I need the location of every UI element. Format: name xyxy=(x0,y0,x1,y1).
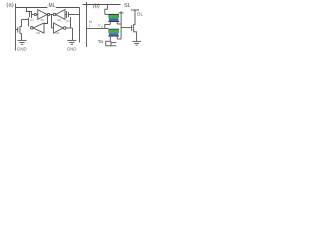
svg-text:DL: DL xyxy=(137,11,143,16)
wire N3 drain jog xyxy=(22,19,29,21)
op-amp I4 triangle xyxy=(54,23,64,33)
wire SLB right vertical xyxy=(79,8,81,43)
svg-text:(a): (a) xyxy=(6,3,13,9)
op-amp I3 triangle xyxy=(33,23,44,33)
wire N1 source down xyxy=(28,18,30,27)
wire T1 source stub xyxy=(109,22,111,24)
wire I2 base xyxy=(65,14,67,16)
svg-text:L: L xyxy=(89,24,91,28)
svg-text:GND: GND xyxy=(67,47,77,53)
wire M5 source to ground xyxy=(134,32,137,42)
wire T2 source structure xyxy=(105,41,107,46)
op-amp I2 triangle xyxy=(56,10,65,20)
ground left xyxy=(18,39,27,41)
wire ML horizontal xyxy=(16,7,80,9)
svg-text:N1: N1 xyxy=(30,18,34,22)
transistor N3 gate lead xyxy=(16,29,18,31)
transistor N3 channel bar xyxy=(19,26,21,34)
wire M5 drain up xyxy=(134,10,135,24)
wire node to I4 input xyxy=(52,15,54,28)
node terminal T bar xyxy=(119,12,124,14)
svg-text:M2: M2 xyxy=(57,18,61,22)
svg-text:SL: SL xyxy=(124,3,131,9)
wire I1-I2 xyxy=(50,14,53,16)
wire SL left vertical xyxy=(15,4,17,51)
wire T1 source to ML xyxy=(105,24,111,28)
svg-text:GND: GND xyxy=(17,47,27,53)
node junction bubble xyxy=(34,13,36,15)
ground right xyxy=(132,40,140,42)
transistor M5 gate bar xyxy=(131,25,133,31)
wire N2 to SLB xyxy=(69,14,80,16)
wire N3 source down xyxy=(21,34,23,41)
transistor M5 channel bar xyxy=(133,24,135,32)
node I4 output bubble xyxy=(63,27,66,30)
node ML label xyxy=(47,1,55,8)
svg-text:M4: M4 xyxy=(55,31,59,35)
svg-text:M1: M1 xyxy=(41,18,45,22)
wire T1 drain stub xyxy=(116,22,118,24)
wire I1out to I3 base xyxy=(44,15,48,24)
wire SL top xyxy=(83,4,121,6)
wire N2 gate down xyxy=(70,17,72,28)
wire FeFET T1 gate drop xyxy=(105,5,108,15)
transistor N1 channel bar xyxy=(31,11,33,18)
svg-text:M3: M3 xyxy=(36,31,40,35)
transistor N1 drain bend xyxy=(27,8,32,12)
node I2 input bubble xyxy=(53,13,55,15)
wire T2 drain stub xyxy=(116,37,118,39)
transistor N3 gate bar xyxy=(17,27,19,33)
wire terminal stem xyxy=(120,13,122,39)
transistor N1 gate bar xyxy=(29,12,31,17)
wire FeFET drains to gate of M5 xyxy=(121,27,132,29)
svg-text:ML: ML xyxy=(49,3,56,9)
op-amp I1 triangle xyxy=(38,10,47,20)
wire N1 to inverter I1 xyxy=(32,14,38,16)
ground mid xyxy=(67,39,76,41)
wire I4 output xyxy=(66,27,73,29)
node I3 output bubble xyxy=(31,27,34,30)
transistor T2 FeFET gate stack xyxy=(108,29,119,30)
node terminal DL bar xyxy=(131,9,139,11)
wire T2 source stub xyxy=(109,37,111,42)
wire down to ground mid xyxy=(72,28,74,40)
transistor N2 gate bar xyxy=(68,12,70,17)
transistor T1 FeFET gate stack xyxy=(108,14,119,15)
svg-text:Ta: Ta xyxy=(98,39,104,44)
wire T1 drain to DL stem xyxy=(117,23,121,25)
wire ML left vertical (b) xyxy=(86,2,88,47)
svg-text:N2: N2 xyxy=(66,19,70,23)
transistor N2 channel bar xyxy=(66,11,68,18)
node I1 output bubble xyxy=(47,13,49,15)
wire T2 drain connect xyxy=(117,38,121,40)
